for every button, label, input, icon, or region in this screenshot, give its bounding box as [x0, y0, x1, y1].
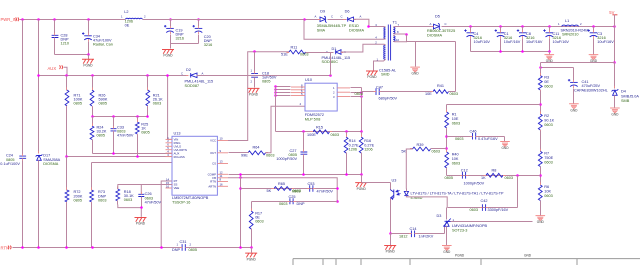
svg-text:L1: L1 [565, 19, 569, 23]
junction drain bus [360, 95, 363, 98]
wire FB net [228, 178, 337, 202]
wire gate link [266, 106, 306, 153]
svg-text:47nF/50V: 47nF/50V [317, 189, 334, 193]
svg-text:0603: 0603 [455, 137, 463, 141]
T1 pin8 lead [393, 33, 407, 35]
wire output rail [442, 26, 615, 28]
svg-text:0.47uF/16V: 0.47uF/16V [478, 137, 498, 141]
svg-text:10K: 10K [452, 157, 459, 161]
junction gate bus [274, 94, 277, 97]
svg-text:0805: 0805 [355, 92, 363, 96]
svg-text:100E: 100E [307, 133, 316, 137]
wire R14 top stub [346, 132, 348, 137]
wire snubber right drop [455, 42, 457, 92]
svg-text:750E: 750E [544, 156, 553, 160]
transistor U10 FDMS2572 box [305, 83, 337, 111]
svg-text:0603: 0603 [544, 123, 552, 127]
sheet border table [293, 259, 640, 265]
svg-text:90.1K: 90.1K [544, 119, 554, 123]
svg-text:FDMS2572: FDMS2572 [305, 113, 324, 117]
svg-text:RTN: RTN [1, 245, 10, 250]
junction drain bus [360, 91, 363, 94]
wire C33 stem bottom [113, 132, 115, 154]
junction [87, 18, 90, 21]
ground PGND filter caps [162, 50, 174, 54]
wire D3 anode stem [446, 227, 448, 246]
svg-text:TSSOP-16: TSSOP-16 [172, 200, 190, 204]
U13 pin 16 ARTN stub [217, 185, 228, 187]
ground GND C41 [569, 104, 579, 106]
svg-text:DIOSMA: DIOSMA [427, 34, 442, 38]
svg-text:1812: 1812 [399, 234, 407, 238]
svg-text:GND: GND [570, 108, 578, 112]
wire opto collector [390, 183, 392, 190]
svg-text:51E: 51E [281, 53, 288, 57]
wire C1 stem top [500, 27, 502, 32]
svg-text:VCC: VCC [210, 139, 216, 143]
svg-text:3216: 3216 [176, 37, 184, 41]
svg-text:A: A [360, 15, 362, 19]
opto U3 LED [404, 191, 408, 195]
wire R24 bottom stub [92, 140, 94, 154]
wire opto collector rail [362, 182, 391, 184]
wire C34 stem top [88, 20, 90, 35]
svg-text:PGND: PGND [247, 257, 257, 261]
wire OUT stub to R64 [229, 152, 249, 154]
junction node primary input [303, 18, 306, 21]
svg-text:R7: R7 [544, 151, 549, 155]
capacitor C46 [473, 133, 476, 140]
svg-text:5V: 5V [609, 10, 614, 15]
wire C42 row [448, 207, 518, 209]
ground GND output caps [545, 55, 555, 57]
svg-text:0603: 0603 [450, 92, 458, 96]
U13 pin 9 OUT stub [217, 152, 228, 154]
junction gate bus [274, 91, 277, 94]
svg-text:SOD-80C: SOD-80C [322, 60, 339, 64]
svg-text:1206: 1206 [349, 147, 357, 151]
wire C28 C34 join [55, 54, 89, 56]
wire GND stem snubber [415, 42, 417, 67]
ground GND secondary aux [410, 67, 420, 69]
wire C18 stem top [254, 52, 256, 74]
wire C46 right [478, 136, 505, 138]
T1 pin3 lead [378, 26, 386, 29]
wire 5V down [614, 27, 616, 63]
wire fb column bottom [540, 201, 542, 216]
junction [169, 18, 172, 21]
wire aux rail [39, 75, 189, 77]
svg-text:DNP: DNP [172, 248, 180, 252]
wire aux rail right [197, 75, 331, 77]
wire aux secondary row [407, 41, 456, 43]
junction [112, 115, 115, 118]
wire T1 pin1 down [373, 61, 375, 71]
wire R26 top stub [92, 76, 94, 91]
svg-text:0E: 0E [125, 23, 130, 27]
svg-text:3216: 3216 [204, 43, 212, 47]
svg-text:R40: R40 [452, 152, 459, 156]
U10 pin 7 stub [291, 89, 305, 91]
wire R71 bottom [66, 107, 68, 157]
capacitor C25 [290, 198, 293, 204]
wire D1 anode to T1 pin2 [341, 44, 378, 52]
junction [613, 61, 616, 64]
ground GND C3 [589, 55, 599, 57]
svg-text:R2: R2 [544, 114, 549, 118]
junction [140, 206, 143, 209]
wire D9 to D6 [328, 19, 347, 21]
wire C20 stem top [198, 20, 200, 27]
junction bottom rail [160, 246, 163, 249]
svg-text:13: 13 [220, 160, 224, 164]
wire C25 row [252, 201, 338, 203]
wire R39 right [431, 148, 447, 150]
wire fb column top [540, 63, 542, 76]
wire C14 riser [444, 227, 446, 234]
svg-text:D2: D2 [186, 68, 191, 72]
transformer T1 core [388, 25, 390, 61]
wire C33 stem top [113, 117, 115, 129]
wire VIN riser [168, 76, 172, 140]
capacitor C28 [52, 35, 59, 37]
wire opto LED anode [406, 189, 408, 192]
wire D3 output [451, 221, 533, 223]
wire U10 pin 7 [276, 89, 291, 91]
U10 pin 2 stub [337, 91, 350, 93]
wire C19 C20 join [171, 43, 199, 45]
svg-text:D6: D6 [345, 10, 350, 14]
wire feedback top rail [541, 62, 615, 64]
junction [302, 173, 305, 176]
T1 primary winding lower [384, 45, 386, 59]
svg-text:0805: 0805 [141, 131, 149, 135]
junction [499, 50, 502, 53]
svg-text:0603: 0603 [98, 198, 106, 202]
wire C27 stem bottom [303, 156, 305, 175]
svg-text:D5: D5 [435, 15, 440, 19]
wire C27 stem top [303, 132, 305, 152]
svg-text:0603: 0603 [432, 150, 440, 154]
wire RT net [161, 181, 172, 247]
wire C46 left [447, 136, 473, 138]
resistor R3 [538, 76, 542, 90]
svg-text:R1: R1 [452, 112, 457, 116]
capacitor C31 [182, 244, 185, 251]
wire U10 pin 3 [351, 96, 362, 98]
wire R14 bottom stub [346, 153, 348, 175]
junction [367, 25, 370, 28]
wire cap bank bottom rail [471, 51, 550, 53]
wire R21 top stub [147, 76, 149, 91]
wire T1 pin7 to D5 [403, 26, 433, 28]
wire D3 top link [446, 208, 448, 220]
wire sense rail [276, 131, 362, 133]
svg-text:C42: C42 [481, 199, 488, 203]
wire R73 bottom [91, 203, 93, 248]
junction [253, 50, 256, 53]
svg-text:DIOSMA: DIOSMA [349, 28, 364, 32]
wire fb rail right [447, 175, 541, 177]
junction bottom rail [65, 246, 68, 249]
svg-text:0805: 0805 [99, 102, 107, 106]
resistor R73 [90, 190, 94, 202]
junction bottom rail [239, 246, 242, 249]
svg-text:0E: 0E [544, 80, 549, 84]
svg-text:10uF/16V: 10uF/16V [526, 40, 543, 44]
junction [21, 18, 24, 21]
ground PGND opto [384, 246, 396, 250]
svg-text:0603: 0603 [300, 53, 308, 57]
wire U10 pin 8 [276, 86, 291, 88]
wire R25 top stub [137, 117, 139, 123]
diode D1 [336, 50, 341, 55]
svg-text:PGND: PGND [163, 54, 173, 58]
svg-text:CAPAE830W102HL: CAPAE830W102HL [574, 88, 608, 92]
T1 primary winding upper [384, 27, 386, 39]
svg-text:C31: C31 [180, 240, 187, 244]
ground PGND input caps [82, 59, 94, 63]
wire opto emitter [390, 199, 392, 234]
junction bottom rail [250, 246, 253, 249]
svg-text:0603: 0603 [505, 176, 513, 180]
junction [539, 174, 542, 177]
svg-text:R41: R41 [437, 84, 444, 88]
wire U10 pin 6 [276, 92, 291, 94]
svg-text:VEE: VEE [174, 186, 180, 190]
diode D4 [613, 90, 618, 95]
resistor R25 [135, 122, 139, 134]
svg-text:0805: 0805 [189, 248, 197, 252]
junction [37, 74, 40, 77]
capacitor C41 [570, 81, 578, 83]
svg-text:PGND: PGND [249, 93, 259, 97]
T1 secondary winding upper [393, 27, 395, 33]
U13 pin 5 UVLORTN stub [166, 149, 173, 151]
svg-text:0805: 0805 [445, 176, 453, 180]
svg-text:C53: C53 [308, 182, 315, 186]
wire C26 stem top [140, 185, 142, 195]
resistor R11 [289, 50, 306, 54]
svg-text:SRN2010: SRN2010 [562, 33, 578, 37]
wire fb column mid3 [540, 167, 542, 185]
wire COMP sense return [229, 174, 362, 176]
wire C3 stem top [593, 27, 595, 32]
svg-text:D9: D9 [320, 10, 325, 14]
wire snubber mid [381, 91, 433, 93]
wire C41 stem top [573, 68, 575, 81]
wire left bus 1 upper [22, 20, 24, 155]
T1 pin7 lead [393, 26, 402, 29]
svg-text:OUT: OUT [210, 151, 216, 155]
junction [521, 50, 524, 53]
junction [239, 176, 242, 179]
ground PGND bottom [245, 253, 257, 257]
wire bias node riser [330, 53, 332, 76]
wire UVLO to U13 [93, 153, 173, 155]
ground PGND sense [355, 183, 367, 187]
inductor L2 winding [126, 18, 143, 19]
wire R25 bottom stub [137, 135, 139, 157]
svg-text:C: C [181, 72, 183, 76]
svg-text:99E: 99E [241, 153, 248, 157]
junction [91, 74, 94, 77]
wire C18 bottom [254, 78, 256, 88]
junction [239, 187, 242, 190]
resistor R40 [445, 152, 449, 168]
svg-text:SMD: SMD [381, 72, 390, 76]
wire PGND stem sense [361, 175, 363, 183]
ground GND D3 [442, 246, 452, 248]
svg-text:R11: R11 [291, 46, 298, 50]
wire compensation rail [241, 188, 338, 190]
capacitor C42 [482, 204, 485, 211]
wire R1 bottom [446, 129, 448, 153]
wire U10 pin 1 [351, 87, 362, 89]
wire R17 top [251, 202, 253, 211]
ground GND D4 [610, 108, 620, 110]
junction [197, 18, 200, 21]
resistor R18 [116, 189, 120, 201]
svg-text:10uF/16V: 10uF/16V [474, 40, 491, 44]
resistor R16 [359, 137, 363, 153]
junction [336, 200, 339, 203]
wire R73 link [91, 163, 93, 191]
wire feedback bus vertical [240, 175, 242, 248]
junction [445, 135, 448, 138]
diode D17 [37, 156, 42, 161]
svg-text:0603: 0603 [279, 202, 287, 206]
svg-text:0603: 0603 [452, 121, 460, 125]
inductor L2 [124, 10, 128, 14]
svg-text:0805: 0805 [97, 134, 105, 138]
wire C42 drop [517, 176, 519, 208]
U10 pin 5 stub [291, 95, 305, 97]
svg-text:16: 16 [220, 183, 224, 187]
svg-text:C12: C12 [461, 169, 468, 173]
capacitor C20 [195, 27, 203, 29]
svg-text:0805: 0805 [74, 198, 82, 202]
junction [539, 103, 542, 106]
svg-text:SOD087: SOD087 [185, 84, 200, 88]
U13 pin 2 RSIG stub [166, 142, 173, 144]
junction [345, 173, 348, 176]
junction output rail [499, 25, 502, 28]
junction [146, 74, 149, 77]
svg-text:5K: 5K [401, 150, 406, 154]
wire D6 to T1 pin3 [354, 19, 379, 26]
junction [345, 130, 348, 133]
svg-text:0805: 0805 [74, 102, 82, 106]
T1 pin10 lead [393, 35, 407, 41]
svg-text:0603: 0603 [266, 153, 274, 157]
junction bottom rail [21, 246, 24, 249]
resistor R65 [274, 187, 292, 191]
wire C14 left [391, 233, 410, 235]
U13 pin 4 AUX stub [166, 152, 173, 154]
wire R16 top stub [361, 132, 363, 137]
wire pin8 pin10 join [406, 35, 408, 42]
ground PGND R18 [135, 218, 147, 222]
capacitor C34 [84, 35, 92, 37]
wire D4 stem bottom [614, 96, 616, 108]
U13 pin 14 RT stub [166, 180, 173, 182]
svg-text:PGND: PGND [386, 250, 396, 254]
junction [360, 173, 363, 176]
wire C46 gnd stem [504, 137, 506, 142]
svg-text:1210: 1210 [61, 42, 69, 46]
junction [539, 66, 542, 69]
wire D4 stem top [614, 63, 616, 89]
wire R40 bottom [446, 169, 448, 176]
wire gate bus [275, 87, 277, 132]
svg-text:L2: L2 [124, 10, 128, 14]
resistor R17 [249, 211, 253, 229]
junction [112, 152, 115, 155]
svg-text:5K: 5K [267, 189, 272, 193]
svg-text:0603: 0603 [452, 161, 460, 165]
wire drain column [361, 88, 363, 132]
junction bias node [329, 74, 332, 77]
junction [302, 130, 305, 133]
resistor R39 [413, 147, 431, 151]
wire R26 bottom [92, 107, 94, 117]
wire R39 left to opto LED [406, 149, 412, 189]
capacitor C1 [497, 32, 505, 34]
wire R17 bottom [251, 229, 253, 248]
svg-text:A: A [430, 22, 432, 26]
svg-text:SMBJ5.0A: SMBJ5.0A [621, 94, 639, 98]
svg-text:R65: R65 [278, 182, 285, 186]
U13 pin 11 FB stub [217, 177, 228, 179]
junction [136, 115, 139, 118]
svg-text:0603: 0603 [255, 220, 263, 224]
svg-text:D4: D4 [621, 89, 626, 93]
svg-text:Radial, Can: Radial, Can [93, 43, 113, 47]
svg-text:C: C [445, 22, 447, 26]
svg-text:0603: 0603 [544, 84, 552, 88]
svg-text:10E: 10E [425, 92, 432, 96]
svg-text:PGND: PGND [367, 75, 377, 79]
capacitor C53 [310, 185, 313, 191]
wire PGND stem opto [390, 234, 392, 246]
wire C26 stem bottom [141, 197, 143, 208]
junction bottom rail [91, 246, 94, 249]
svg-text:GND: GND [412, 72, 420, 76]
wire C14 right [417, 233, 445, 235]
capacitor C26 [138, 194, 144, 196]
wire R11 to D1 [306, 52, 334, 54]
svg-text:0603: 0603 [292, 189, 300, 193]
U13 pin 15 SS stub [166, 184, 173, 186]
wire C41 stem bottom [573, 89, 575, 104]
diode D9 [320, 17, 325, 22]
svg-text:AUX: AUX [48, 66, 57, 71]
wire R16 bottom stub [361, 153, 363, 175]
capacitor C47 [376, 88, 379, 95]
svg-text:0.1uF/100V: 0.1uF/100V [0, 162, 20, 166]
resistor R71 [65, 90, 69, 106]
junction [516, 174, 519, 177]
wire fb column mid1 [540, 91, 542, 115]
junction [37, 18, 40, 21]
wire C4 stem bottom [470, 39, 472, 52]
wire PGND stem bottom [251, 248, 253, 253]
svg-text:R6: R6 [544, 185, 549, 189]
wire top input rail [20, 19, 126, 21]
U13 pin 10 VCC stub [217, 140, 228, 142]
junction [548, 50, 551, 53]
